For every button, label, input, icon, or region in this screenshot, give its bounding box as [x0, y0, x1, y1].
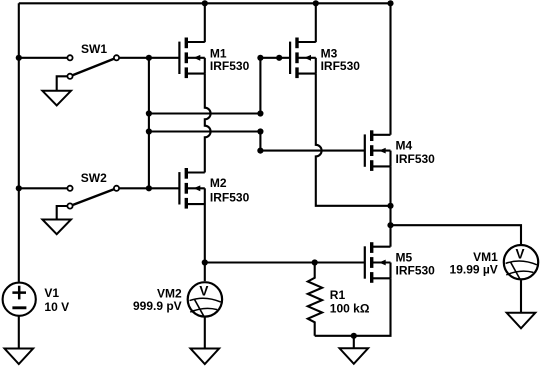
- switch SW2 ground wire: [57, 206, 70, 220]
- svg-text:IRF530: IRF530: [210, 191, 250, 205]
- node M5 drain / VM1 tap: [387, 222, 393, 228]
- svg-text:10 V: 10 V: [44, 300, 69, 314]
- wire SW1 feed: [19, 57, 70, 59]
- wire VM2 to ground: [204, 317, 206, 349]
- node top rail / M4 drain corner: [387, 0, 393, 6]
- svg-text:V1: V1: [44, 286, 59, 300]
- transistor M3: [289, 42, 291, 74]
- node M4 source / M3 source: [387, 203, 393, 209]
- wire left rail V1 to top: [18, 3, 20, 281]
- wire M1 drain riser: [204, 3, 206, 42]
- node M4 gate corner: [257, 148, 263, 154]
- node SW1 wire junction: [146, 55, 152, 61]
- node bottom ground tap: [351, 333, 357, 339]
- svg-text:19.99 µV: 19.99 µV: [450, 263, 498, 277]
- svg-text:M4: M4: [396, 139, 413, 153]
- wire line A to M3 gate column: [149, 112, 261, 114]
- wire mid vertical SW1-SW2 bus: [148, 58, 150, 189]
- svg-text:999.9 pV: 999.9 pV: [133, 299, 182, 313]
- node bus / line B: [146, 128, 152, 134]
- node left rail / SW2: [16, 185, 22, 191]
- ground at SW2: [42, 220, 71, 235]
- wire M4 source down: [389, 166, 391, 225]
- resistor R1: [308, 263, 322, 336]
- svg-text:IRF530: IRF530: [210, 59, 250, 73]
- wire to VM1: [391, 225, 522, 244]
- source V1 circle: [3, 283, 36, 316]
- svg-text:M2: M2: [210, 176, 227, 190]
- node M3 gate stub: [276, 55, 282, 61]
- wire M1 source to M2 drain with hops: [205, 74, 211, 173]
- wire SW2 feed: [19, 187, 70, 189]
- switch SW1 terminal left: [67, 55, 72, 60]
- svg-text:IRF530: IRF530: [396, 264, 436, 278]
- svg-text:V: V: [515, 247, 524, 262]
- wire V1 to ground: [18, 316, 20, 348]
- svg-text:SW2: SW2: [81, 171, 107, 185]
- wire M3 gate riser: [260, 58, 290, 114]
- wire line B to M4 gate column: [149, 130, 261, 132]
- wire M5 source down and left: [315, 278, 391, 336]
- switch SW1 terminal right: [114, 55, 119, 60]
- switch SW2 terminal pole: [67, 203, 72, 208]
- switch SW1 lever: [70, 58, 117, 77]
- node top rail / M3 drain: [313, 0, 319, 6]
- node M2 source / VM2 / M5 gate: [202, 259, 208, 265]
- ground at V1: [5, 349, 34, 365]
- node R1 top: [312, 259, 318, 265]
- wire VM1 to ground: [520, 280, 522, 313]
- voltmeter VM2: [188, 282, 222, 316]
- wire M3 drain riser: [315, 3, 317, 42]
- ground at VM1: [507, 313, 536, 329]
- node M3 gate: [257, 55, 263, 61]
- svg-text:IRF530: IRF530: [321, 59, 361, 73]
- svg-text:100 kΩ: 100 kΩ: [330, 301, 370, 315]
- source V1 minus: [12, 306, 26, 309]
- node line B corner: [257, 128, 263, 134]
- switch SW2 terminal left: [67, 186, 72, 191]
- transistor M1: [178, 42, 180, 74]
- transistor M5: [364, 246, 366, 278]
- node top rail / M1 drain: [202, 0, 208, 6]
- ground at R1: [340, 348, 369, 364]
- node line A corner: [257, 110, 263, 116]
- switch SW1 terminal pole: [67, 74, 72, 79]
- node bus / M2 gate: [146, 185, 152, 191]
- wire M2 source down to VM2: [204, 204, 206, 281]
- svg-text:V: V: [199, 284, 208, 299]
- svg-text:M5: M5: [396, 250, 413, 264]
- wire top supply rail: [19, 2, 391, 4]
- wire SW1 to M1 gate: [117, 57, 180, 59]
- ground at VM2: [191, 349, 220, 365]
- source V1 plus: [12, 286, 26, 300]
- node left rail / SW1: [16, 55, 22, 61]
- switch SW2 terminal right: [114, 186, 119, 191]
- wire ground stub: [353, 336, 355, 349]
- switch SW2 lever: [70, 188, 117, 206]
- svg-text:SW1: SW1: [81, 42, 107, 56]
- ground at SW1: [42, 91, 71, 106]
- switch SW1 ground wire: [57, 76, 70, 91]
- wire M3 source down with hop: [316, 74, 391, 206]
- svg-text:IRF530: IRF530: [396, 152, 436, 166]
- transistor M2: [178, 172, 180, 204]
- wire SW2 to M2 gate: [117, 187, 180, 189]
- wire VM2 to M5 gate: [205, 261, 365, 263]
- svg-text:R1: R1: [330, 288, 346, 302]
- node bus / line A: [146, 110, 152, 116]
- transistor M4: [364, 134, 366, 166]
- wire M4 drain riser: [389, 3, 391, 135]
- wire M5 drain riser: [389, 225, 391, 247]
- wire M4 gate run: [260, 132, 364, 151]
- voltmeter VM1: [504, 245, 538, 279]
